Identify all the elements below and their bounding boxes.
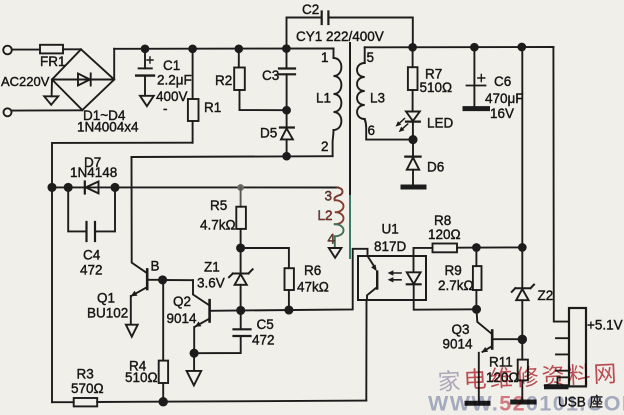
U1 light arrows (392, 273, 401, 280)
svg-text:R5: R5 (210, 198, 227, 213)
svg-text:1: 1 (321, 50, 329, 65)
node C2/C3 (283, 45, 290, 52)
transistor Q1 (132, 157, 147, 273)
watermark (428, 360, 624, 415)
svg-text:Q1: Q1 (97, 291, 115, 306)
svg-text:1N4004x4: 1N4004x4 (77, 120, 139, 135)
capacitor C6 (473, 47, 475, 85)
ground bar Q3 (467, 401, 488, 406)
svg-text:Q3: Q3 (452, 322, 470, 337)
fuse FR1 (40, 45, 63, 54)
node C4 left (65, 184, 72, 191)
svg-text:6: 6 (368, 123, 376, 138)
zener Z2 (512, 285, 534, 292)
transformer winding L3 (364, 47, 366, 63)
svg-text:9014: 9014 (443, 337, 474, 352)
wire U1 emitter to rail (365, 300, 367, 401)
+5V rail (521, 47, 523, 288)
resistor R2 (238, 49, 240, 68)
resistor R11 (521, 339, 523, 359)
zener Z1 (229, 269, 253, 277)
svg-text:472: 472 (252, 333, 275, 348)
bridge rectifier D1-D4 (52, 49, 114, 110)
resistor R9 (475, 248, 477, 267)
resistor R8 (414, 248, 433, 256)
svg-text:400V: 400V (156, 89, 188, 104)
svg-text:Z2: Z2 (538, 288, 554, 303)
wire top bus primary (114, 48, 333, 50)
resistor R7 (412, 47, 414, 67)
transistor Q3 (477, 309, 492, 333)
ground (140, 96, 154, 106)
node R9 top (473, 244, 480, 251)
node R2/C3 (283, 107, 290, 114)
svg-text:R1: R1 (204, 100, 221, 115)
ground (51, 80, 53, 97)
node C6 top (471, 44, 478, 51)
svg-text:120Ω: 120Ω (486, 370, 519, 385)
node LED/pin6 (409, 136, 416, 143)
svg-text:BU102: BU102 (87, 306, 128, 321)
node R7 top (409, 44, 416, 51)
ground Q2 (193, 353, 195, 371)
svg-text:C6: C6 (494, 74, 511, 89)
resistor R1 (192, 49, 194, 99)
node +5V rail top (518, 44, 525, 51)
svg-text:USB 座: USB 座 (558, 395, 603, 410)
terminal L (AC input top) (3, 46, 12, 55)
svg-text:510Ω: 510Ω (420, 80, 453, 95)
svg-text:D5: D5 (260, 126, 277, 141)
secondary top bus (365, 46, 554, 48)
svg-text:16V: 16V (490, 106, 514, 121)
svg-text:Z1: Z1 (204, 260, 220, 275)
node R2 top (235, 45, 242, 52)
svg-text:1N4148: 1N4148 (70, 165, 117, 180)
svg-text:817D: 817D (374, 239, 407, 254)
svg-text:-: - (163, 101, 168, 116)
LED (406, 112, 420, 122)
svg-text:4.7kΩ: 4.7kΩ (200, 218, 236, 233)
node R1 top (189, 45, 196, 52)
resistor R4 (162, 280, 164, 361)
svg-text:+5.1V: +5.1V (587, 318, 623, 333)
node R4 bottom (159, 398, 167, 406)
wire (52, 143, 193, 188)
svg-text:3.6V: 3.6V (197, 276, 225, 291)
svg-text:C3: C3 (262, 68, 279, 83)
svg-text:L3: L3 (370, 91, 385, 106)
capacitor C3 (286, 49, 288, 69)
svg-text:LED: LED (427, 116, 454, 131)
left rail (51, 187, 53, 402)
svg-text:FR1: FR1 (40, 54, 66, 69)
resistor R5 (240, 188, 242, 207)
svg-text:L2: L2 (318, 208, 333, 223)
svg-text:R11: R11 (489, 355, 513, 370)
svg-text:R2: R2 (215, 73, 232, 88)
svg-text:B: B (151, 259, 160, 274)
svg-text:Q2: Q2 (173, 294, 191, 309)
optocoupler U1 box (358, 256, 426, 300)
USB socket (569, 308, 586, 386)
wire (63, 48, 81, 50)
transformer winding L2 (338, 188, 343, 195)
ground Q1 (126, 325, 138, 337)
ground bar R11 (513, 400, 534, 405)
U1 LED (413, 256, 415, 272)
svg-text:CY1 222/400V: CY1 222/400V (296, 29, 384, 44)
svg-text:510Ω: 510Ω (125, 370, 158, 385)
svg-text:120Ω: 120Ω (428, 227, 461, 242)
node Z1 bottom (237, 307, 244, 314)
svg-text:R8: R8 (434, 213, 451, 228)
svg-text:C5: C5 (257, 317, 274, 332)
ground L2 (329, 248, 342, 258)
transformer winding L1 (333, 49, 335, 59)
svg-text:47kΩ: 47kΩ (297, 280, 329, 295)
svg-text:3: 3 (325, 189, 333, 204)
svg-text:R6: R6 (304, 263, 321, 278)
node C4 right (111, 184, 118, 191)
svg-text:R3: R3 (77, 367, 94, 382)
diode D5 (286, 110, 288, 127)
diode D7 (84, 182, 86, 194)
node LED2/R9/Q3 (473, 306, 480, 313)
capacitor C5 (240, 310, 242, 329)
node Q2 emitter (191, 350, 198, 357)
wire (12, 49, 40, 51)
svg-text:570Ω: 570Ω (71, 381, 104, 396)
svg-text:C2: C2 (302, 2, 319, 17)
bottom rail (52, 401, 366, 403)
ground bar D6 (403, 185, 424, 190)
node R6 bottom (285, 306, 292, 313)
svg-text:C4: C4 (83, 248, 101, 263)
wire (113, 49, 115, 80)
svg-text:AC220V: AC220V (1, 74, 50, 89)
transistor Q2 (208, 300, 211, 321)
capacitor C1 (144, 49, 146, 68)
resistor R6 (241, 248, 289, 268)
svg-text:R9: R9 (445, 263, 462, 278)
wire pin2 line (132, 155, 333, 158)
svg-text:C1: C1 (163, 58, 180, 73)
resistor R3 (74, 398, 98, 406)
svg-text:470μF: 470μF (485, 91, 524, 106)
wire base line Q2 (210, 249, 368, 311)
node B (159, 276, 166, 283)
terminal N (AC input bottom) (4, 108, 12, 116)
svg-text:4: 4 (328, 232, 336, 247)
U1 phototransistor (368, 256, 376, 268)
svg-text:D6: D6 (427, 160, 444, 175)
gray node R5 (237, 184, 244, 191)
svg-text:2.2μF: 2.2μF (157, 73, 192, 88)
node Z1 top (237, 244, 244, 251)
wire +5V to USB (553, 47, 569, 322)
diode D7 line (52, 186, 338, 188)
svg-text:2.7kΩ: 2.7kΩ (438, 278, 474, 293)
svg-text:472: 472 (80, 263, 103, 278)
svg-text:2: 2 (321, 139, 329, 154)
node pin2/D5 (283, 153, 290, 160)
capacitor C2 (287, 18, 322, 49)
diode D6 (412, 140, 414, 157)
node rail/R8 (519, 244, 526, 251)
wire (12, 109, 83, 111)
transformer core (349, 43, 351, 196)
svg-text:U1: U1 (382, 222, 399, 237)
svg-text:L1: L1 (316, 91, 331, 106)
ground bar USB (547, 384, 567, 389)
capacitor C4 (68, 187, 86, 231)
node Q3 collector (519, 336, 527, 344)
LED arrows (398, 119, 408, 131)
svg-text:9014: 9014 (167, 311, 198, 326)
node C1 top (142, 45, 149, 52)
svg-text:5: 5 (367, 50, 375, 65)
node rail/D7 (48, 184, 55, 191)
